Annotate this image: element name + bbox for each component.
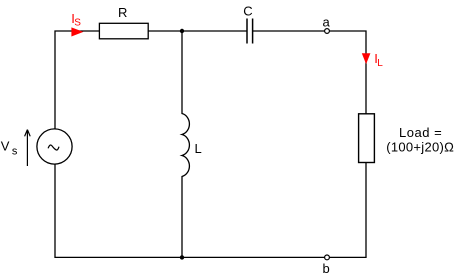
svg-text:C: C	[243, 3, 252, 18]
svg-text:a: a	[322, 15, 330, 30]
svg-text:L: L	[195, 141, 202, 156]
svg-text:S: S	[74, 17, 81, 28]
svg-text:V: V	[1, 139, 10, 154]
svg-text:Load =: Load =	[399, 125, 442, 140]
svg-text:L: L	[377, 58, 383, 69]
svg-text:R: R	[118, 5, 127, 20]
svg-text:b: b	[322, 261, 329, 276]
svg-text:s: s	[12, 146, 18, 158]
svg-text:(100+j20)Ω: (100+j20)Ω	[386, 140, 454, 155]
